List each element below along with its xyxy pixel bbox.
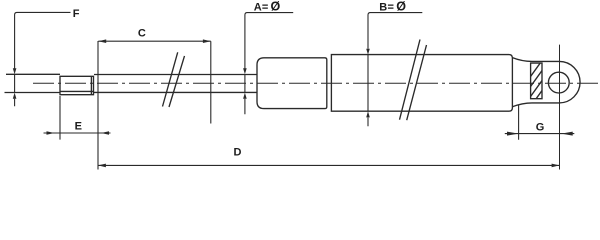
tube break lines	[400, 40, 427, 121]
svg-text:E: E	[75, 120, 82, 132]
eyelet bushing (hatched section)	[531, 63, 542, 99]
svg-text:G: G	[536, 122, 545, 134]
dimension B leader	[368, 13, 422, 127]
dimension G	[505, 105, 575, 140]
dimension F leader	[15, 12, 71, 106]
cylinder tube	[331, 55, 512, 112]
dimension C	[98, 41, 211, 123]
svg-text:C: C	[138, 27, 146, 39]
threaded end block E section	[60, 76, 94, 94]
svg-text:A=Ø: A=Ø	[254, 0, 281, 14]
center line (dash-dot axis)	[33, 82, 599, 84]
eyelet outer ring (right half)	[559, 61, 580, 103]
svg-text:D: D	[234, 146, 242, 158]
dimension A leader	[245, 13, 293, 115]
dimension D	[98, 41, 560, 170]
eyelet vertical center line	[559, 45, 561, 170]
cylinder front section (rounded)	[257, 58, 327, 109]
eyelet bracket	[512, 58, 559, 107]
svg-text:F: F	[73, 8, 80, 20]
svg-text:B=Ø: B=Ø	[379, 0, 406, 14]
dimension E	[44, 96, 111, 140]
eyelet inner hole	[548, 72, 569, 93]
rod break lines	[163, 52, 185, 107]
piston rod	[5, 74, 258, 92]
